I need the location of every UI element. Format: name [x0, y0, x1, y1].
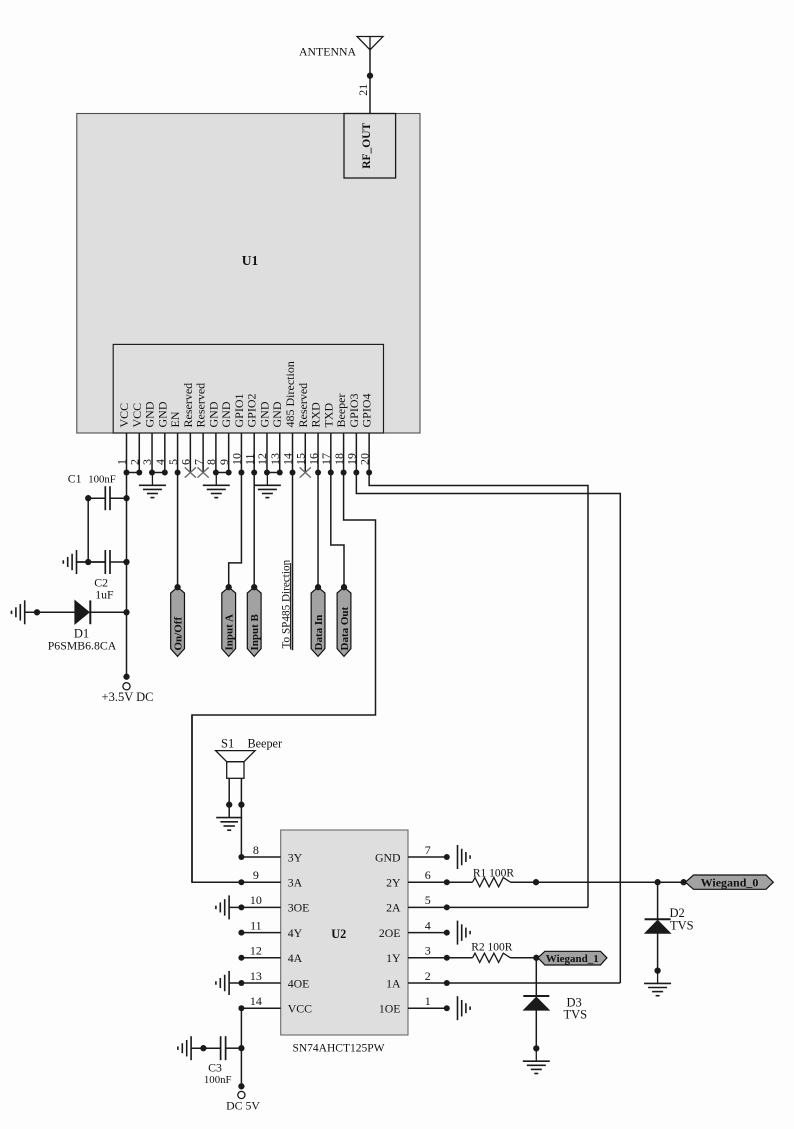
svg-text:Data In: Data In	[313, 615, 325, 651]
svg-text:11: 11	[250, 918, 262, 932]
svg-text:2OE: 2OE	[379, 926, 401, 940]
svg-text:2: 2	[425, 969, 431, 983]
svg-text:4: 4	[425, 918, 431, 932]
svg-text:RF_OUT: RF_OUT	[361, 122, 373, 168]
svg-text:Data Out: Data Out	[339, 606, 351, 650]
svg-text:VCC: VCC	[288, 1002, 312, 1016]
svg-text:1: 1	[425, 994, 431, 1008]
svg-text:3: 3	[425, 944, 431, 958]
svg-text:2A: 2A	[386, 901, 401, 915]
svg-text:Wiegand_0: Wiegand_0	[701, 875, 759, 889]
svg-text:+3.5V DC: +3.5V DC	[102, 690, 154, 704]
svg-text:TVS: TVS	[670, 919, 694, 933]
svg-text:5: 5	[425, 893, 431, 907]
svg-text:On/Off: On/Off	[173, 617, 185, 651]
svg-text:2Y: 2Y	[386, 876, 401, 890]
svg-text:U2: U2	[331, 927, 346, 941]
svg-text:Input B: Input B	[249, 613, 261, 650]
svg-text:7: 7	[425, 843, 431, 857]
svg-text:3A: 3A	[288, 876, 303, 890]
svg-text:9: 9	[253, 868, 259, 882]
svg-text:13: 13	[250, 969, 262, 983]
svg-text:ANTENNA: ANTENNA	[299, 45, 356, 59]
svg-text:14: 14	[250, 994, 262, 1008]
svg-text:GND: GND	[375, 850, 401, 864]
svg-text:SN74AHCT125PW: SN74AHCT125PW	[292, 1043, 384, 1055]
svg-text:3Y: 3Y	[288, 850, 303, 864]
svg-text:C3: C3	[208, 1061, 222, 1075]
svg-text:R1 100R: R1 100R	[473, 868, 515, 880]
svg-text:GPIO4: GPIO4	[360, 393, 374, 427]
svg-text:1uF: 1uF	[95, 587, 114, 601]
svg-text:3OE: 3OE	[288, 901, 310, 915]
svg-text:P6SMB6.8CA: P6SMB6.8CA	[48, 638, 117, 652]
svg-text:To SP485 Direction: To SP485 Direction	[280, 559, 292, 648]
svg-text:20: 20	[357, 453, 371, 465]
svg-text:10: 10	[250, 893, 262, 907]
svg-text:R2 100R: R2 100R	[471, 942, 513, 954]
svg-text:C1: C1	[68, 472, 82, 486]
svg-text:100nF: 100nF	[88, 474, 116, 486]
svg-text:TVS: TVS	[564, 1008, 588, 1022]
svg-text:1A: 1A	[386, 976, 401, 990]
svg-text:12: 12	[250, 944, 262, 958]
svg-text:S1: S1	[221, 737, 234, 751]
svg-text:Wiegand_1: Wiegand_1	[546, 953, 599, 965]
svg-text:4OE: 4OE	[288, 976, 310, 990]
svg-text:100nF: 100nF	[204, 1074, 232, 1086]
svg-text:6: 6	[425, 868, 431, 882]
svg-text:8: 8	[253, 843, 259, 857]
svg-text:4A: 4A	[288, 951, 303, 965]
svg-text:Beeper: Beeper	[248, 737, 283, 751]
svg-text:21: 21	[356, 84, 370, 96]
svg-text:1OE: 1OE	[379, 1002, 401, 1016]
svg-text:U1: U1	[242, 253, 259, 268]
svg-text:DC 5V: DC 5V	[226, 1099, 260, 1113]
svg-text:Input A: Input A	[224, 614, 236, 650]
svg-text:1Y: 1Y	[386, 951, 401, 965]
svg-text:4Y: 4Y	[288, 926, 303, 940]
